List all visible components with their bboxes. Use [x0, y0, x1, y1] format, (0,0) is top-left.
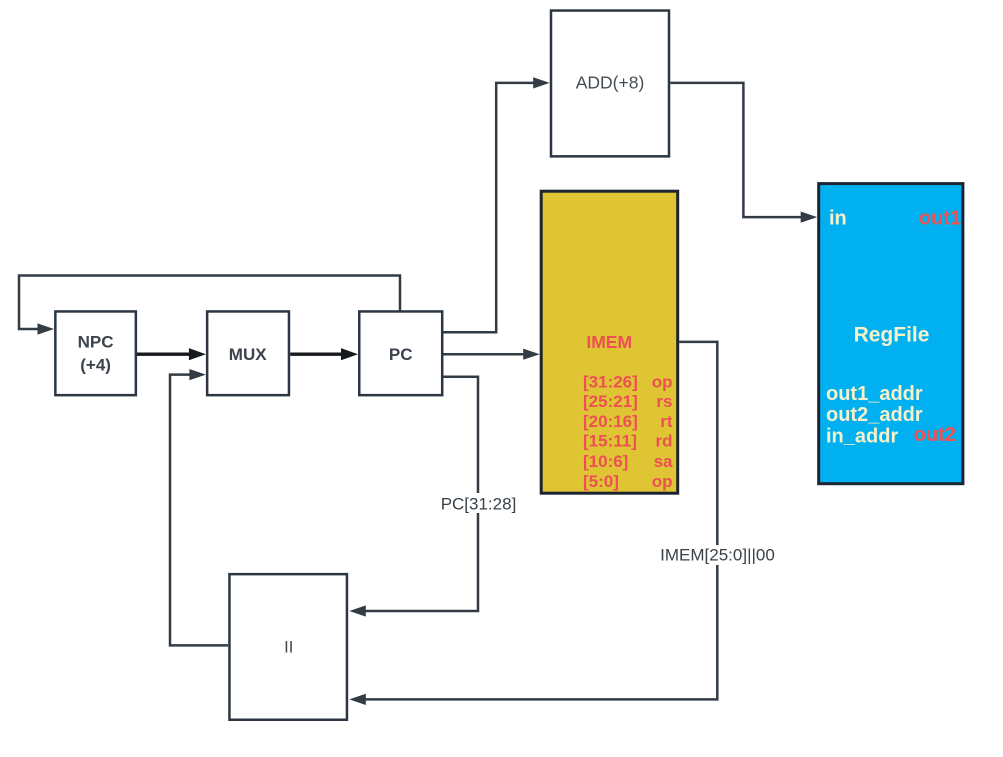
- IMEM field [5:0] op: [583, 472, 673, 491]
- IMEM field [10:6] sa: [583, 452, 673, 471]
- svg-text:out2_addr: out2_addr: [826, 404, 923, 426]
- svg-text:[25:21]: [25:21]: [583, 392, 638, 411]
- wire ADD to RegFile: [670, 83, 817, 223]
- block RegFile: [819, 184, 963, 484]
- svg-text:IMEM[25:0]||00: IMEM[25:0]||00: [660, 546, 775, 565]
- block PC: [359, 311, 442, 395]
- label PC[31:28]: [439, 493, 519, 514]
- svg-text:[5:0]: [5:0]: [583, 472, 619, 491]
- wire PC to ADD: [443, 77, 550, 332]
- svg-text:out1: out1: [919, 208, 961, 230]
- wire PC to II (PC[31:28]): [349, 377, 478, 617]
- svg-text:IMEM: IMEM: [586, 332, 632, 352]
- block IMEM: [541, 191, 678, 493]
- svg-text:PC: PC: [389, 345, 413, 364]
- svg-text:ADD(+8): ADD(+8): [576, 73, 645, 93]
- svg-text:op: op: [652, 373, 673, 392]
- svg-text:PC[31:28]: PC[31:28]: [441, 495, 517, 514]
- block II: [229, 574, 347, 720]
- svg-text:[10:6]: [10:6]: [583, 452, 628, 471]
- svg-text:in_addr: in_addr: [826, 426, 898, 448]
- svg-text:rd: rd: [656, 432, 673, 451]
- svg-text:op: op: [652, 472, 673, 491]
- wire PC-top feedback to NPC: [19, 276, 400, 335]
- svg-text:rs: rs: [656, 392, 672, 411]
- IMEM field [15:11] rd: [583, 432, 673, 451]
- IMEM field [25:21] rs: [583, 392, 673, 411]
- label IMEM[25:0]||00: [651, 545, 784, 565]
- svg-text:out1_addr: out1_addr: [826, 383, 923, 405]
- svg-text:rt: rt: [660, 412, 673, 431]
- svg-text:sa: sa: [654, 452, 673, 471]
- block NPC(+4): [55, 311, 136, 395]
- arrow NPC to MUX (bold): [137, 348, 206, 360]
- block ADD(+8): [551, 11, 669, 157]
- svg-text:MUX: MUX: [229, 345, 267, 364]
- block MUX: [207, 311, 289, 395]
- arrow MUX to PC (bold): [290, 348, 358, 360]
- svg-text:[20:16]: [20:16]: [583, 412, 638, 431]
- svg-text:out2: out2: [914, 424, 956, 446]
- IMEM field [31:26] op: [583, 373, 673, 392]
- wire II to MUX: [170, 369, 228, 645]
- svg-text:(+4): (+4): [80, 356, 111, 375]
- svg-text:in: in: [829, 208, 847, 230]
- svg-text:II: II: [284, 639, 293, 657]
- svg-text:[31:26]: [31:26]: [583, 373, 638, 392]
- wire IMEM to II (IMEM[25:0]||00): [349, 342, 717, 705]
- wire PC to IMEM: [443, 349, 540, 360]
- svg-text:RegFile: RegFile: [854, 324, 930, 347]
- svg-text:NPC: NPC: [78, 333, 114, 352]
- IMEM field [20:16] rt: [583, 412, 673, 431]
- svg-text:[15:11]: [15:11]: [583, 432, 637, 451]
